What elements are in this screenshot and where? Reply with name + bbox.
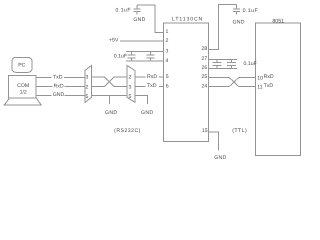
connector J2 DB9 right xyxy=(127,66,135,103)
svg-text:4: 4 xyxy=(166,58,169,64)
svg-text:0.1uF: 0.1uF xyxy=(243,8,259,14)
svg-text:0.1uF: 0.1uF xyxy=(116,7,132,13)
capacitor C3 0.1uF xyxy=(146,52,154,62)
svg-text:2: 2 xyxy=(86,85,89,91)
svg-text:28: 28 xyxy=(202,46,208,52)
svg-text:GND: GND xyxy=(214,155,226,161)
svg-text:GND: GND xyxy=(141,110,153,116)
svg-text:0.1uF: 0.1uF xyxy=(244,61,257,67)
svg-text:LT1130CN: LT1130CN xyxy=(172,16,203,22)
wire GND rail between connectors xyxy=(91,95,127,97)
MCU 8051 box xyxy=(255,23,300,155)
wire crossover TxD xyxy=(91,77,127,86)
svg-text:PC: PC xyxy=(18,62,25,68)
svg-text:RxD: RxD xyxy=(264,74,274,80)
svg-text:RxD: RxD xyxy=(147,74,157,80)
wire crossover RxD xyxy=(91,77,127,86)
svg-text:5: 5 xyxy=(86,94,89,100)
svg-text:GND: GND xyxy=(232,20,244,26)
svg-text:2: 2 xyxy=(166,38,169,44)
wire GND drop left xyxy=(109,96,111,104)
svg-text:2: 2 xyxy=(128,74,131,80)
PC monitor screen xyxy=(12,57,32,72)
PC keyboard xyxy=(4,98,41,105)
svg-text:6: 6 xyxy=(166,83,169,89)
svg-text:0.1uF: 0.1uF xyxy=(114,54,127,60)
svg-text:25: 25 xyxy=(202,74,208,80)
capacitor C5 0.1uF xyxy=(213,59,222,68)
svg-text:1: 1 xyxy=(166,29,169,35)
svg-text:TxD: TxD xyxy=(264,83,274,89)
svg-text:24: 24 xyxy=(202,83,208,89)
svg-text:TxD: TxD xyxy=(147,83,157,89)
capacitor C4 0.1uF top-right xyxy=(233,4,240,14)
svg-text:COM: COM xyxy=(17,83,29,89)
wire TxD connector to U1 pin6 xyxy=(135,86,163,88)
wire pin3 rail xyxy=(126,51,163,53)
svg-text:RxD: RxD xyxy=(54,83,64,89)
svg-text:TxD: TxD xyxy=(53,74,63,80)
svg-text:GND: GND xyxy=(53,92,65,98)
svg-text:+5V: +5V xyxy=(109,38,119,44)
svg-text:15: 15 xyxy=(202,128,208,134)
capacitor C2 0.1uF xyxy=(128,52,136,62)
IC U1 LT1130CN box xyxy=(163,23,208,141)
svg-text:(RS232C): (RS232C) xyxy=(114,128,141,134)
wire RxD connector to U1 pin5 xyxy=(135,76,163,78)
wire pin24 crossover to 8051 xyxy=(208,77,255,86)
svg-text:3: 3 xyxy=(128,84,131,90)
svg-text:(TTL): (TTL) xyxy=(232,128,247,134)
svg-text:1/2: 1/2 xyxy=(20,90,27,96)
svg-text:GND: GND xyxy=(105,110,117,116)
svg-text:27: 27 xyxy=(202,56,208,62)
wire pin25 crossover to 8051 xyxy=(208,77,255,86)
svg-text:10: 10 xyxy=(257,75,263,81)
wire pin1 net xyxy=(137,5,163,32)
wire TxD PC to connector xyxy=(36,76,85,78)
wire pin28 net xyxy=(208,4,236,49)
wire RxD PC to connector xyxy=(36,86,85,88)
connector J1 DB9 left xyxy=(85,66,91,103)
wire pin4 rail xyxy=(126,60,163,62)
svg-text:5: 5 xyxy=(166,74,169,80)
svg-text:8051: 8051 xyxy=(272,19,284,25)
svg-text:GND: GND xyxy=(133,17,145,23)
svg-text:3: 3 xyxy=(166,48,169,54)
capacitor C1 0.1uF top-left xyxy=(134,5,141,14)
svg-text:3: 3 xyxy=(86,75,89,81)
capacitor C6 0.1uF xyxy=(227,59,236,68)
wire pin27 rail xyxy=(208,58,237,60)
wire GND drop right xyxy=(135,96,148,104)
wire GND PC to connector xyxy=(36,95,85,97)
wire pin15 GND net xyxy=(208,132,218,150)
svg-text:26: 26 xyxy=(202,65,208,71)
svg-text:11: 11 xyxy=(257,84,262,90)
PC body COM1/2 xyxy=(9,75,37,98)
wire +5V to pin2 xyxy=(120,40,163,42)
wire pin26 rail xyxy=(208,67,237,69)
svg-text:5: 5 xyxy=(128,94,131,100)
